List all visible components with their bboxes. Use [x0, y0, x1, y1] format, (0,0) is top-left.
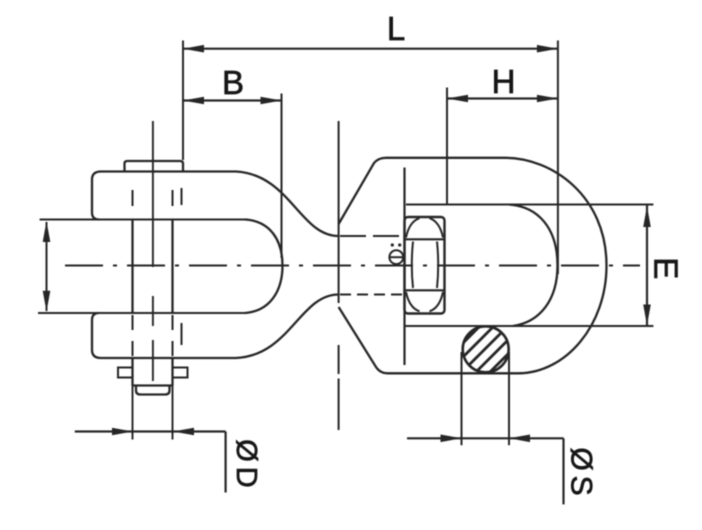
hole hidden dash bottom arm — [181, 323, 183, 345]
dimension S line — [407, 435, 564, 505]
pin shaft visible — [131, 220, 133, 314]
jaw inner top edge + extension — [40, 218, 246, 220]
swivel axis line — [338, 121, 340, 430]
main horizontal centerline — [65, 265, 640, 267]
hidden bore line top — [340, 235, 405, 237]
hidden bore line bottom — [340, 294, 405, 296]
dimension S extension lines — [461, 352, 463, 445]
svg-text:ØD: ØD — [230, 439, 262, 493]
jaw inner bottom edge + extension — [38, 312, 246, 314]
pin centerline — [152, 121, 154, 381]
extension line H left — [446, 88, 448, 206]
nut band line bottom — [405, 289, 445, 291]
pin head — [125, 161, 184, 172]
nut chamfer arcs top band — [406, 218, 443, 237]
inner wall vertical — [403, 168, 405, 366]
jaw inner wall arc — [245, 220, 283, 314]
pin shaft hidden dashes bottom arm — [133, 315, 173, 356]
inner opening bottom edge + E extension — [405, 325, 654, 327]
extension line left (L/B) — [182, 41, 184, 161]
nut chamfer arcs middle band — [412, 242, 438, 289]
cotter pin right — [173, 368, 188, 378]
pin below arm — [133, 358, 173, 386]
svg-text:ØS: ØS — [565, 447, 598, 500]
right body outline — [339, 158, 607, 373]
jaw outer outline top — [92, 172, 339, 237]
hex nut body — [405, 217, 445, 314]
pin retainer cup — [136, 386, 170, 395]
grease fitting symbol — [389, 243, 405, 264]
jaw opening dimension — [43, 221, 51, 312]
hole hidden dash top arm — [181, 188, 183, 205]
jaw outer outline bottom — [92, 295, 339, 359]
svg-text:E: E — [648, 257, 685, 279]
cotter pin left — [118, 368, 133, 378]
svg-text:H: H — [492, 63, 516, 100]
nut band line top — [405, 238, 445, 240]
dimension E line — [643, 205, 651, 326]
hatched circle (section S) — [463, 326, 509, 372]
dimension D line — [75, 428, 226, 493]
dimension H line — [447, 95, 558, 103]
svg-text:L: L — [387, 10, 405, 47]
svg-text:B: B — [222, 64, 244, 101]
dimension B line — [183, 97, 282, 105]
extension line B right — [281, 94, 283, 259]
dimension L line — [183, 45, 558, 53]
extension line right (L/H) — [557, 41, 559, 275]
inner opening top edge + E extension — [406, 203, 653, 205]
pin extension lines to dimension — [133, 386, 173, 440]
pin retainer top line — [133, 384, 173, 386]
nut chamfer arcs bottom band — [406, 292, 443, 311]
inner opening curve — [509, 205, 558, 327]
pin shaft hidden dashes top arm — [133, 190, 173, 206]
